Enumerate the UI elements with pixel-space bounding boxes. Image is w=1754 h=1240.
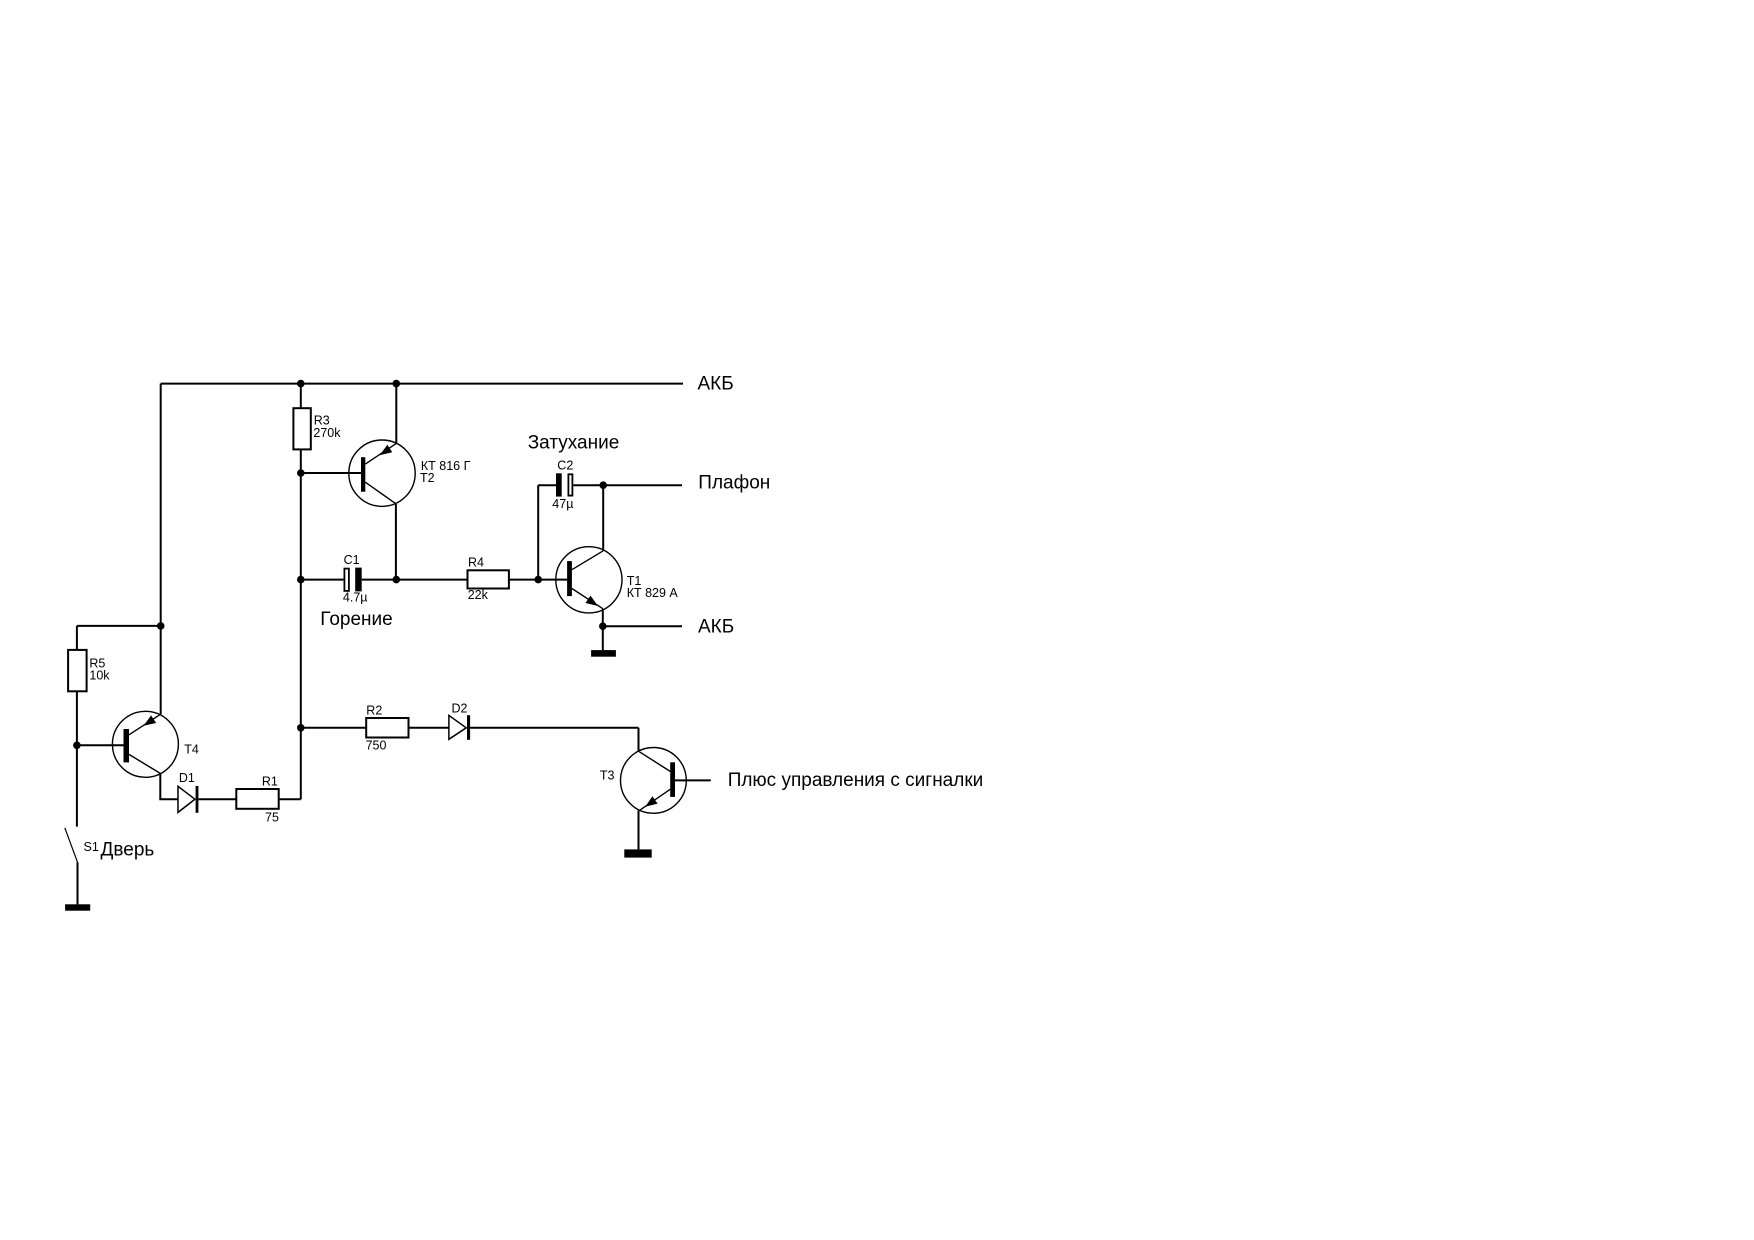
- wire: T1 collector vertical: [602, 485, 604, 551]
- resistor R3: [293, 408, 341, 449]
- svg-text:750: 750: [366, 739, 387, 753]
- wire: T4 collector to D1: [159, 798, 178, 800]
- node: junction Plafon/T1 collector: [599, 481, 607, 489]
- wire: left rail down to T4 emitter: [160, 384, 162, 715]
- svg-text:R1: R1: [262, 775, 278, 789]
- svg-text:КТ 829 А: КТ 829 А: [627, 586, 679, 600]
- wire: T3 collector vertical: [638, 728, 640, 752]
- wire: T2 collector vertical down to C1 node: [395, 504, 397, 580]
- ground: S1: [65, 904, 90, 910]
- wire: AKB top rail: [161, 383, 683, 385]
- svg-text:C1: C1: [344, 553, 360, 567]
- transistor T4 (PNP): [112, 711, 198, 777]
- wire: C2 left lead: [538, 484, 556, 486]
- transistor T1 (NPN KT829): [556, 547, 679, 613]
- svg-text:Т3: Т3: [600, 769, 615, 783]
- wire: T3 base lead: [675, 779, 711, 781]
- wire: horizontal to R5 branch: [77, 625, 161, 627]
- node: T2 base junction: [297, 469, 305, 477]
- wire: S1 bottom to ground: [77, 862, 79, 904]
- wire: R5 top lead: [76, 626, 78, 650]
- wire: R1 to center rail: [279, 798, 301, 800]
- resistor R4: [468, 556, 509, 602]
- svg-text:10k: 10k: [89, 669, 110, 683]
- wire: center rail R3 bottom down to R1 node: [300, 449, 302, 799]
- diode D2: [449, 702, 470, 740]
- wire: C1 left lead: [301, 579, 344, 581]
- svg-text:D1: D1: [179, 771, 195, 785]
- wire: node to R2: [301, 727, 366, 729]
- resistor R1: [236, 775, 279, 825]
- node: junction T1 emitter/AKB: [599, 622, 607, 630]
- wire: T1 emitter down to ground: [602, 609, 604, 650]
- node: junction C2 branch: [534, 576, 542, 584]
- svg-text:270k: 270k: [313, 426, 341, 440]
- resistor R2: [366, 704, 409, 753]
- capacitor C1: [343, 553, 368, 605]
- svg-text:Т2: Т2: [420, 471, 435, 485]
- wire: R5 bottom down to switch S1: [76, 691, 78, 826]
- wire: R3 top lead: [300, 384, 302, 409]
- switch S1 blade: [65, 828, 78, 862]
- node: junction center rail/R2: [297, 724, 305, 732]
- svg-text:Т4: Т4: [184, 743, 199, 757]
- resistor R5: [68, 650, 110, 691]
- svg-text:47µ: 47µ: [552, 497, 573, 511]
- wire: T4 collector down: [159, 773, 161, 799]
- transistor T2 (PNP KT816): [349, 440, 471, 506]
- svg-text:22k: 22k: [468, 588, 489, 602]
- wire: AKB mid rail from T1 emitter: [603, 625, 682, 627]
- svg-text:Затухание: Затухание: [528, 432, 620, 453]
- svg-text:S1: S1: [84, 840, 99, 854]
- svg-text:Горение: Горение: [320, 609, 392, 630]
- svg-text:75: 75: [265, 810, 279, 824]
- svg-text:C2: C2: [557, 459, 573, 473]
- node: junction left rail/T4 emitter: [157, 622, 165, 630]
- capacitor C2: [552, 459, 573, 511]
- wire: D1 to R1: [198, 798, 236, 800]
- ground: T1 emitter: [591, 650, 616, 657]
- wire: C1 to R4: [362, 579, 468, 581]
- node: junction T2 emitter/AKB: [393, 380, 401, 388]
- svg-text:АКБ: АКБ: [698, 616, 734, 637]
- wire: T4 base: [77, 744, 124, 746]
- svg-text:АКБ: АКБ: [698, 374, 734, 395]
- svg-text:D2: D2: [452, 702, 468, 716]
- svg-text:Плафон: Плафон: [698, 473, 770, 494]
- node: junction C1/T2 collector: [393, 576, 401, 584]
- wire: T3 emitter down to ground: [638, 811, 640, 850]
- wire: C2 right lead to Plafon: [573, 484, 682, 486]
- node: junction R3/AKB: [297, 380, 305, 388]
- wire: R4 to T1 base: [509, 579, 567, 581]
- svg-text:R2: R2: [366, 704, 382, 718]
- node: junction C1 left: [297, 576, 305, 584]
- diode D1: [178, 771, 198, 813]
- svg-text:4.7µ: 4.7µ: [343, 591, 368, 605]
- ground: T3 emitter: [624, 849, 651, 857]
- wire: T2 emitter vertical to AKB rail: [395, 384, 397, 444]
- wire: D2 to T3 collector: [470, 727, 638, 729]
- svg-text:R4: R4: [468, 556, 484, 570]
- svg-text:Дверь: Дверь: [101, 840, 155, 861]
- wire: C2 branch vertical: [537, 485, 539, 579]
- svg-text:Плюс управления с сигналки: Плюс управления с сигналки: [728, 770, 984, 791]
- transistor T3 (NPN mirrored): [600, 748, 686, 814]
- wire: T2 base: [301, 472, 361, 474]
- node: T4 base junction: [73, 742, 81, 750]
- wire: R2 to D2: [409, 727, 449, 729]
